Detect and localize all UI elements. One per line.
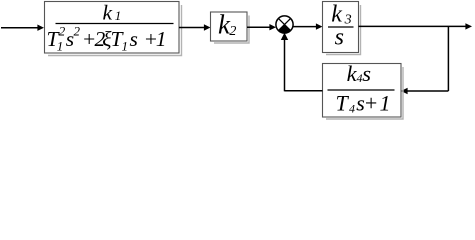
block G3 shadow [326,5,361,55]
svg-text:2: 2 [59,24,66,39]
summing junction [276,16,293,33]
value label k2 [218,10,236,40]
wire: summing junction to k3/s [293,23,322,29]
block H1 shadow [326,67,403,119]
svg-text:T: T [336,91,350,116]
block K2 shadow [214,16,249,44]
wire: G1 to k2 [179,24,211,30]
fraction bar of G3 [328,26,354,28]
block H1 k4 s/(T4 s + 1) [323,64,402,118]
svg-text:1: 1 [380,91,391,116]
svg-text:k: k [103,0,113,24]
wire: k2 to summing junction [247,24,276,30]
svg-text:1: 1 [115,8,122,23]
value label k4 s (numerator of H1) [347,61,372,86]
svg-text:2: 2 [229,24,236,39]
svg-text:s: s [362,61,371,86]
svg-text:3: 3 [344,13,352,28]
svg-text:s: s [130,27,138,51]
block G1 k1/(T1^2 s^2 + 2 xi T1 s + 1) [45,2,180,54]
value label T4 s + 1 (denominator of H1) [336,91,391,116]
svg-text:+: + [364,91,379,116]
wire: H1 output back to summing junction [281,33,323,92]
value label T1^2 s^2 + 2 xi T1 s + 1 (denominator of G1) [47,24,167,54]
wire: output line [359,23,473,29]
wire: branch down to feedback block H1 [401,88,448,94]
wire: input line R(s) [1,25,44,31]
block G1 shadow [48,5,182,56]
block K2 [211,12,248,41]
node: output branch point [447,26,449,91]
fraction bar of G1 [56,23,174,25]
svg-text:s: s [335,25,344,51]
value label k3 (numerator of G3) [331,1,351,27]
svg-text:1: 1 [122,39,129,54]
svg-text:2: 2 [74,24,81,39]
svg-text:k: k [331,1,342,27]
block G3 k3/s [323,2,359,53]
fraction bar of H1 [328,89,395,91]
svg-text:1: 1 [156,27,167,51]
value label k1 (numerator of G1) [103,0,122,24]
svg-text:4: 4 [349,101,355,115]
svg-text:1: 1 [57,39,64,54]
